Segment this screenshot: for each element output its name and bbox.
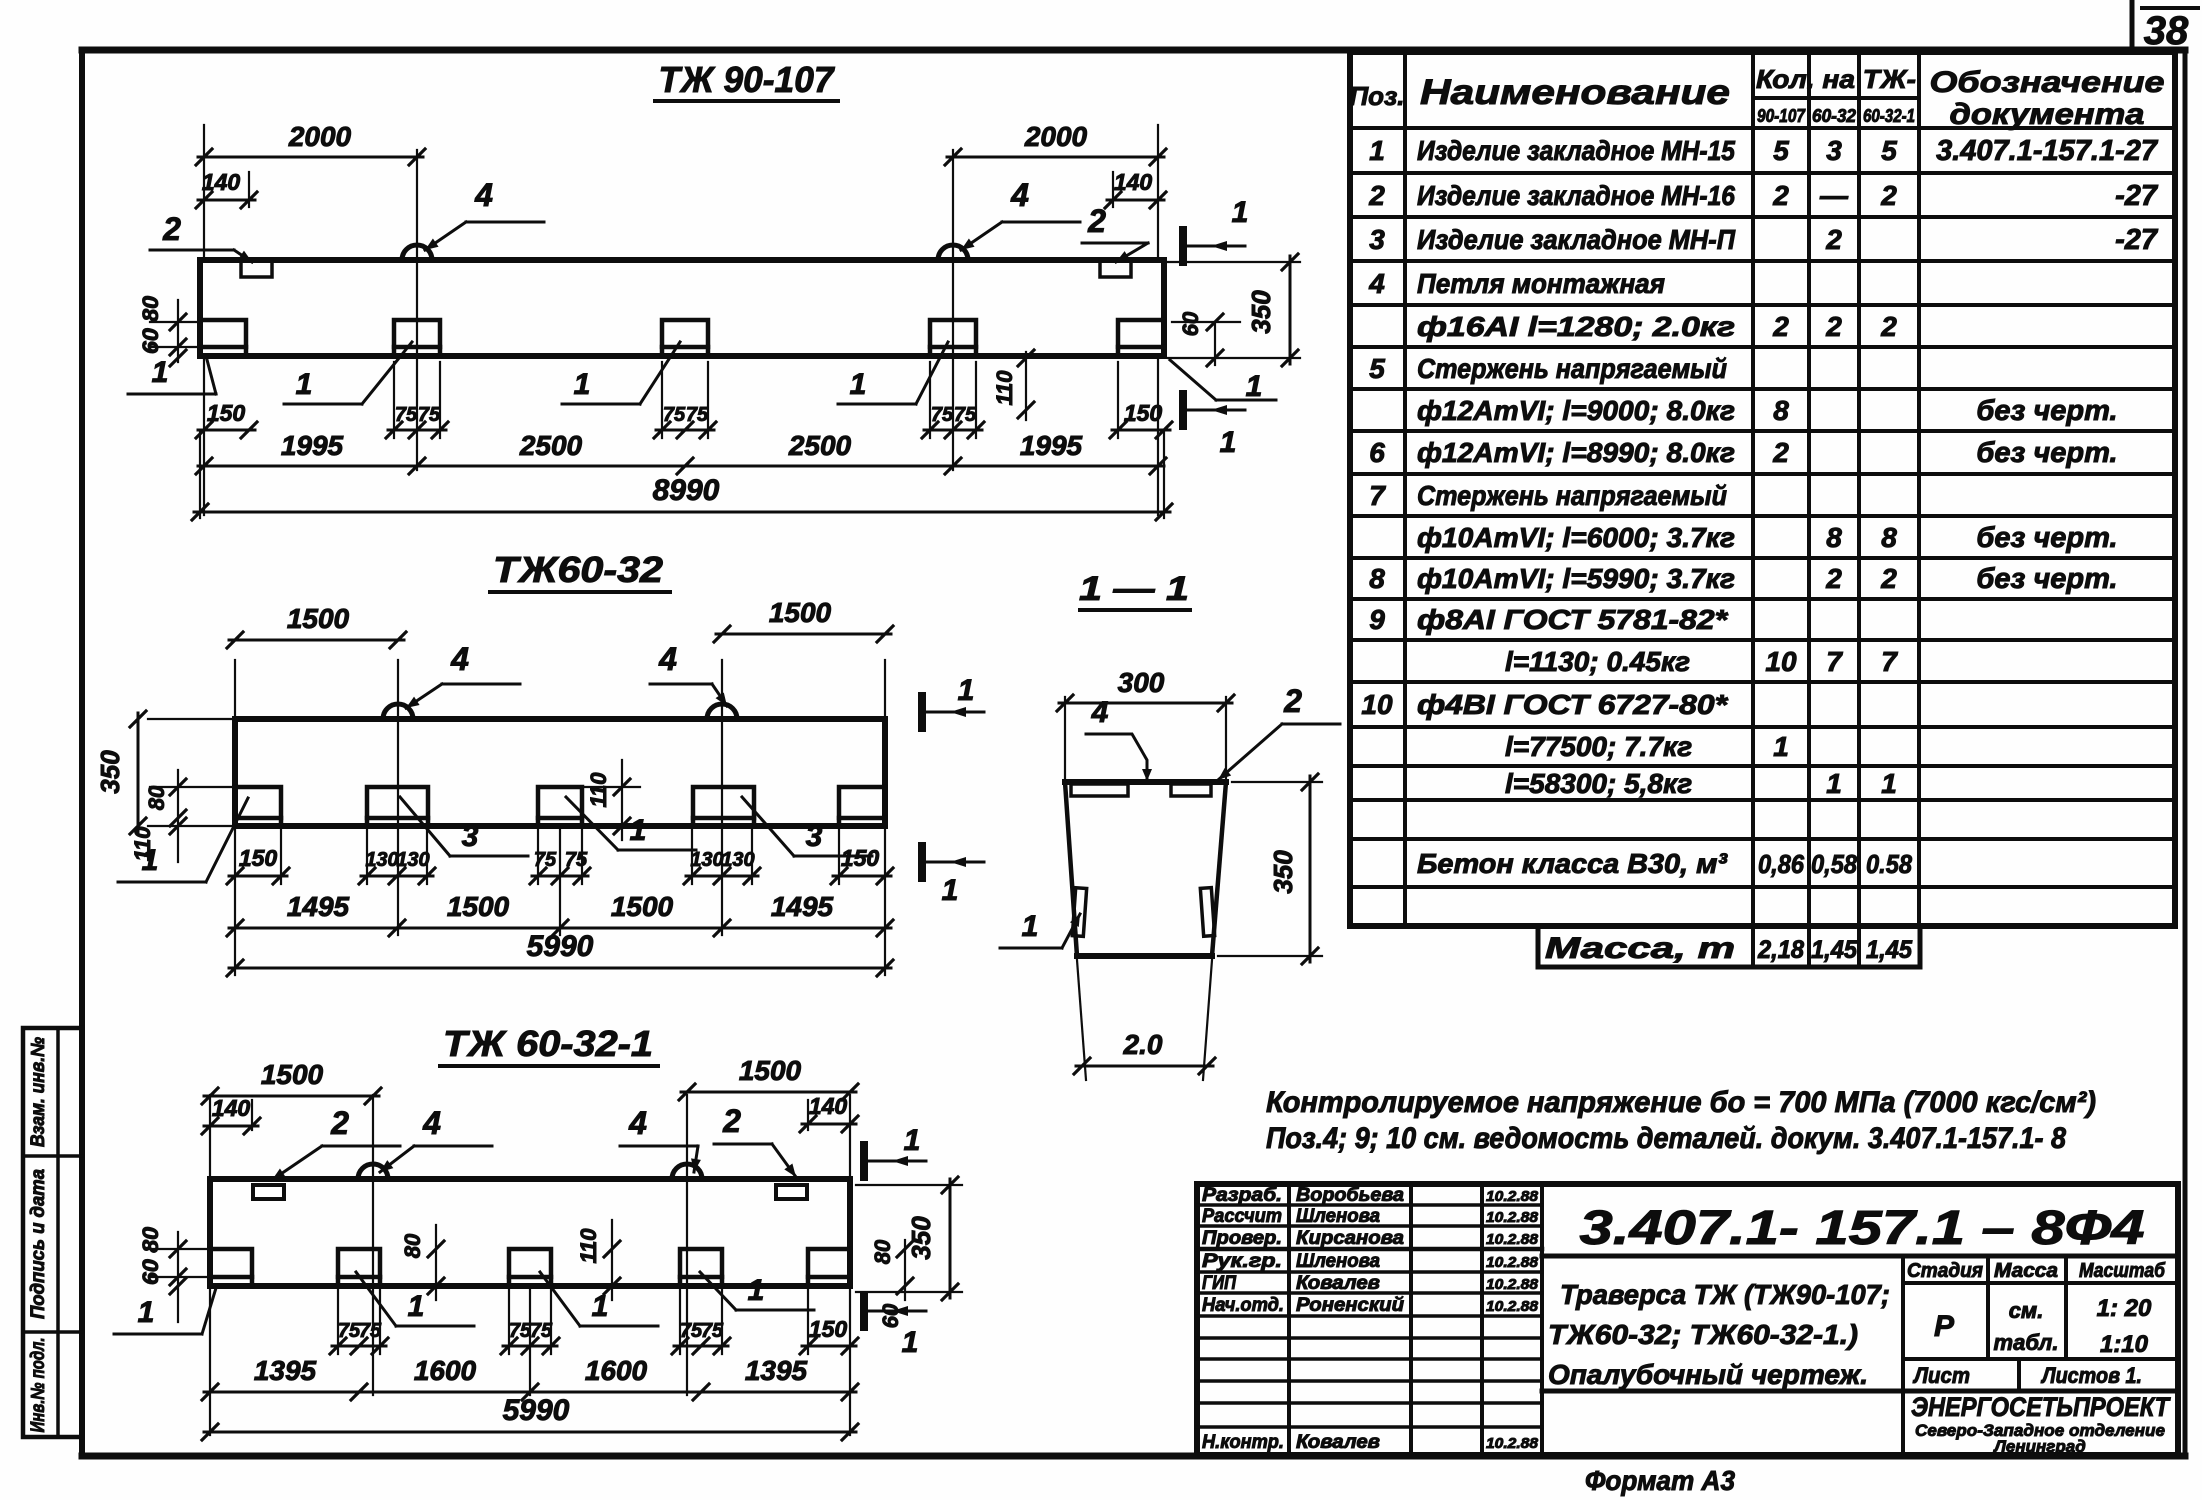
svg-text:90-107: 90-107 (1757, 106, 1806, 126)
svg-text:1: 1 (1220, 426, 1237, 459)
section 1-1 trapezoid outline (1065, 779, 1226, 785)
svg-text:3: 3 (462, 820, 479, 853)
svg-text:0.58: 0.58 (1866, 849, 1912, 879)
svg-text:4: 4 (474, 177, 493, 213)
svg-text:2: 2 (1283, 683, 1302, 719)
svg-text:1,45: 1,45 (1866, 936, 1913, 964)
dim 1500 left beam2 (229, 639, 404, 642)
beam 1 centre extension lines (416, 150, 418, 470)
svg-text:ЭНЕРГОСЕТЬПРОЕКТ: ЭНЕРГОСЕТЬПРОЕКТ (1911, 1392, 2171, 1422)
section mark 1 bottom right beam3 (860, 1295, 868, 1327)
svg-text:150: 150 (207, 400, 246, 426)
vertical dim 80/110 inside beam3 (435, 1225, 437, 1300)
svg-text:без черт.: без черт. (1976, 437, 2117, 469)
svg-text:75: 75 (530, 1320, 553, 1342)
svg-text:без черт.: без черт. (1976, 522, 2117, 554)
svg-text:10.2.88: 10.2.88 (1486, 1298, 1539, 1315)
svg-text:ф16АI l=1280; 2.0кг: ф16АI l=1280; 2.0кг (1417, 311, 1735, 342)
svg-text:3: 3 (1826, 135, 1842, 166)
lifting loops pos.4 on beam 1 (402, 245, 432, 260)
svg-text:Формат А3: Формат А3 (1585, 1465, 1735, 1496)
svg-text:3: 3 (806, 820, 823, 853)
svg-text:5990: 5990 (527, 930, 594, 963)
svg-text:150: 150 (239, 845, 278, 871)
bottom dims level A beam3 (332, 1345, 386, 1348)
svg-text:7: 7 (1826, 646, 1843, 677)
svg-text:Масса: Масса (1994, 1260, 2058, 1282)
svg-text:4: 4 (1010, 177, 1029, 213)
svg-text:Ковалев: Ковалев (1296, 1273, 1380, 1294)
svg-text:3: 3 (1369, 224, 1385, 255)
svg-text:1: 1 (1246, 370, 1263, 403)
svg-text:75: 75 (338, 1320, 361, 1342)
section mark 1 top right beam2 (918, 696, 926, 728)
svg-text:1: 1 (1773, 731, 1789, 762)
svg-text:2: 2 (1880, 311, 1897, 342)
svg-text:1: 20: 1: 20 (2097, 1295, 2152, 1322)
section mark 1 top right beam3 (860, 1145, 868, 1177)
svg-text:2000: 2000 (1024, 121, 1088, 152)
svg-text:Наименование: Наименование (1420, 73, 1730, 112)
svg-text:75: 75 (565, 849, 588, 871)
svg-text:10: 10 (1361, 689, 1393, 720)
svg-text:1500: 1500 (611, 891, 674, 922)
dim 140 left beam1 (198, 199, 255, 202)
svg-text:4: 4 (422, 1105, 441, 1141)
dim 1500 left beam3 (204, 1095, 379, 1098)
svg-text:7: 7 (1369, 480, 1386, 511)
svg-text:75: 75 (418, 404, 441, 426)
dim 300 section (1059, 702, 1232, 705)
svg-text:без черт.: без черт. (1976, 395, 2117, 427)
svg-text:2: 2 (1772, 180, 1789, 211)
parts list table (1350, 52, 2175, 926)
svg-text:5: 5 (1369, 353, 1385, 384)
svg-text:2: 2 (1825, 224, 1842, 255)
svg-text:1: 1 (904, 1124, 921, 1157)
svg-text:Лист: Лист (1912, 1363, 1970, 1388)
svg-text:10: 10 (1765, 646, 1797, 677)
svg-text:Изделие закладное МН-16: Изделие закладное МН-16 (1417, 180, 1735, 211)
dim 350 section (1309, 776, 1312, 962)
svg-text:1: 1 (630, 814, 647, 847)
svg-text:2: 2 (722, 1103, 741, 1139)
svg-text:1: 1 (958, 674, 975, 707)
svg-text:Бетон класса В30, м³: Бетон класса В30, м³ (1417, 848, 1728, 879)
section mark 1 bottom right beam2 (918, 846, 926, 878)
embedded plates on beam 2 (235, 787, 281, 826)
svg-text:1600: 1600 (585, 1355, 648, 1386)
beam TZh 60-32 outline (235, 719, 885, 826)
dim row 1495-1500-1500-1495 beam2 (229, 927, 891, 930)
svg-text:10.2.88: 10.2.88 (1486, 1209, 1539, 1226)
dim 8990 beam1 (194, 511, 1170, 514)
svg-text:4: 4 (450, 641, 469, 677)
svg-text:Стержень напрягаемый: Стержень напрягаемый (1417, 480, 1727, 511)
svg-text:2500: 2500 (788, 430, 852, 461)
dim 2.0 section (1077, 960, 1086, 1080)
svg-text:8: 8 (1773, 395, 1789, 426)
vertical dims right beam3 (949, 1179, 952, 1298)
svg-text:110: 110 (992, 370, 1017, 406)
svg-text:60-32: 60-32 (1812, 106, 1856, 126)
svg-text:Изделие закладное МН-15: Изделие закладное МН-15 (1417, 135, 1735, 166)
svg-text:1: 1 (574, 368, 591, 401)
svg-text:4: 4 (1368, 268, 1385, 299)
svg-text:75: 75 (701, 1320, 724, 1342)
svg-text:60-32-1: 60-32-1 (1863, 106, 1915, 126)
dim 140 right beam1 (1107, 199, 1164, 202)
svg-text:75: 75 (686, 404, 709, 426)
svg-text:см.: см. (2009, 1298, 2044, 1323)
svg-text:1395: 1395 (745, 1355, 808, 1386)
svg-text:2500: 2500 (519, 430, 583, 461)
svg-text:1: 1 (1022, 910, 1039, 943)
svg-text:Инв.№ подл.: Инв.№ подл. (28, 1338, 49, 1433)
svg-text:4: 4 (1091, 696, 1109, 729)
sheet frame (82, 47, 2185, 54)
svg-text:2: 2 (1368, 180, 1385, 211)
top notches pos.2 on beam 1 (241, 260, 272, 277)
svg-text:2: 2 (1880, 563, 1897, 594)
svg-text:9: 9 (1369, 604, 1385, 635)
dim 5990 beam3 (204, 1431, 856, 1434)
svg-text:Роненский: Роненский (1296, 1295, 1404, 1316)
svg-text:Траверса ТЖ (ТЖ90-107;: Траверса ТЖ (ТЖ90-107; (1560, 1279, 1890, 1310)
svg-text:1: 1 (138, 1296, 155, 1329)
svg-text:5990: 5990 (503, 1394, 570, 1427)
svg-text:2: 2 (1880, 180, 1897, 211)
svg-text:1495: 1495 (287, 891, 350, 922)
svg-text:Листов 1.: Листов 1. (2040, 1363, 2142, 1388)
svg-text:без черт.: без черт. (1976, 563, 2117, 595)
svg-text:2,18: 2,18 (1757, 936, 1804, 964)
left margin strip (23, 1028, 82, 1437)
beam 2 extension lines (397, 660, 399, 935)
svg-text:1: 1 (296, 368, 313, 401)
section top embedded strips (1071, 784, 1128, 796)
beam 3 extension lines (372, 1095, 374, 1395)
svg-text:Рассчит: Рассчит (1202, 1206, 1282, 1227)
svg-text:Опалубочный чертеж.: Опалубочный чертеж. (1548, 1359, 1868, 1390)
svg-text:5: 5 (1881, 135, 1897, 166)
svg-text:Провер.: Провер. (1202, 1228, 1282, 1249)
svg-text:75: 75 (359, 1320, 382, 1342)
svg-text:ф4ВI ГОСТ 6727-80*: ф4ВI ГОСТ 6727-80* (1417, 689, 1728, 720)
svg-text:2: 2 (1772, 437, 1789, 468)
svg-text:150: 150 (1124, 400, 1163, 426)
beam TZh 90-107 outline (200, 260, 1164, 356)
svg-text:Воробьева: Воробьева (1296, 1185, 1404, 1206)
svg-text:2: 2 (1825, 311, 1842, 342)
svg-text:Рук.гр.: Рук.гр. (1202, 1251, 1282, 1272)
svg-text:0,86: 0,86 (1758, 849, 1804, 879)
svg-text:1: 1 (748, 1274, 765, 1307)
svg-text:l=1130; 0.45кг: l=1130; 0.45кг (1505, 646, 1690, 677)
svg-text:ф10АтVI; l=6000; 3.7кг: ф10АтVI; l=6000; 3.7кг (1417, 522, 1735, 553)
svg-text:80: 80 (144, 785, 169, 810)
dim row 1995-2500-2500-1995 beam1 (198, 465, 1164, 468)
svg-text:1: 1 (1369, 135, 1385, 166)
svg-text:350: 350 (906, 1216, 936, 1260)
svg-text:1:10: 1:10 (2100, 1331, 2149, 1358)
svg-text:7: 7 (1881, 646, 1898, 677)
svg-text:Изделие закладное МН-П: Изделие закладное МН-П (1417, 224, 1736, 255)
svg-text:75: 75 (395, 404, 418, 426)
svg-text:4: 4 (658, 641, 677, 677)
svg-text:Масса, т: Масса, т (1545, 932, 1735, 965)
svg-text:110: 110 (586, 772, 611, 808)
svg-text:1: 1 (592, 1290, 609, 1323)
svg-text:80: 80 (870, 1239, 895, 1264)
svg-text:-27: -27 (2115, 224, 2159, 256)
svg-text:8: 8 (1369, 563, 1385, 594)
svg-text:4: 4 (628, 1105, 647, 1141)
svg-text:Стержень напрягаемый: Стержень напрягаемый (1417, 353, 1727, 384)
section mark 1 bottom right beam1 (1179, 394, 1187, 426)
dim 1500 right beam3 (681, 1091, 856, 1094)
svg-text:ТЖ60-32; ТЖ60-32-1.): ТЖ60-32; ТЖ60-32-1.) (1548, 1319, 1858, 1350)
svg-text:130: 130 (721, 849, 754, 871)
svg-text:10.2.88: 10.2.88 (1486, 1435, 1539, 1452)
dim 1500 right beam2 (716, 633, 891, 636)
svg-text:0,58: 0,58 (1811, 849, 1857, 879)
svg-text:Разраб.: Разраб. (1202, 1185, 1282, 1206)
svg-text:Кол. на ТЖ-: Кол. на ТЖ- (1756, 64, 1916, 94)
dim row 1395-1600-1600-1395 beam3 (204, 1391, 856, 1394)
svg-text:Р: Р (1934, 1310, 1955, 1343)
svg-text:табл.: табл. (1994, 1330, 2059, 1355)
svg-text:110: 110 (576, 1228, 601, 1264)
svg-text:Поз.: Поз. (1349, 81, 1404, 111)
lifting loops pos.4 on beam 3 (358, 1164, 388, 1179)
svg-text:1: 1 (850, 368, 867, 401)
page number 38 box (2130, 0, 2135, 50)
dim 5990 beam2 (229, 967, 891, 970)
svg-text:130: 130 (396, 849, 429, 871)
svg-text:Нач.отд.: Нач.отд. (1202, 1295, 1284, 1316)
svg-text:75: 75 (954, 404, 977, 426)
svg-text:350: 350 (1268, 850, 1298, 894)
org cell (1542, 1389, 2178, 1394)
svg-text:140: 140 (1114, 169, 1153, 195)
svg-text:Шленова: Шленова (1296, 1206, 1380, 1227)
svg-text:ТЖ 90-107: ТЖ 90-107 (659, 59, 836, 100)
svg-text:Стадия: Стадия (1907, 1260, 1983, 1282)
svg-text:2: 2 (1825, 563, 1842, 594)
svg-text:10.2.88: 10.2.88 (1486, 1188, 1539, 1205)
svg-text:130: 130 (690, 849, 723, 871)
svg-text:ф10АтVI; l=5990; 3.7кг: ф10АтVI; l=5990; 3.7кг (1417, 563, 1735, 594)
svg-text:l=77500; 7.7кг: l=77500; 7.7кг (1505, 731, 1692, 762)
svg-text:130: 130 (365, 849, 398, 871)
svg-text:60: 60 (1178, 311, 1203, 336)
title block (1197, 1184, 2178, 1455)
svg-text:1395: 1395 (254, 1355, 317, 1386)
vertical dims right beam1 (1289, 256, 1292, 364)
svg-text:ТЖ60-32: ТЖ60-32 (493, 549, 663, 590)
list row (1903, 1357, 2178, 1361)
svg-text:1: 1 (1826, 768, 1842, 799)
svg-text:1500: 1500 (739, 1055, 802, 1086)
svg-text:Петля монтажная: Петля монтажная (1417, 268, 1665, 299)
svg-text:Ковалев: Ковалев (1296, 1432, 1380, 1453)
svg-text:Поз.4; 9; 10 см. ведомость дет: Поз.4; 9; 10 см. ведомость деталей. доку… (1266, 1122, 2066, 1155)
svg-text:Н.контр.: Н.контр. (1202, 1432, 1284, 1453)
svg-text:Контролируемое напряжение бо: Контролируемое напряжение бо = 700 МПа (… (1266, 1086, 2096, 1119)
bottom dims level A beam1 (198, 429, 255, 432)
svg-text:5: 5 (1773, 135, 1789, 166)
svg-text:2: 2 (330, 1105, 349, 1141)
svg-text:300: 300 (1118, 667, 1165, 698)
svg-text:ГИП: ГИП (1202, 1273, 1236, 1294)
svg-text:60 80: 60 80 (138, 295, 163, 354)
svg-text:Взам. инв.№: Взам. инв.№ (28, 1037, 49, 1147)
svg-text:75: 75 (509, 1320, 532, 1342)
embedded plates on beam 3 (210, 1249, 252, 1286)
svg-text:8990: 8990 (653, 474, 720, 507)
vertical dim 110 inside beam2 (621, 760, 623, 840)
section side plates pos.1 (1072, 888, 1086, 937)
svg-text:75: 75 (931, 404, 954, 426)
svg-text:1: 1 (1881, 768, 1897, 799)
svg-text:2.0: 2.0 (1123, 1029, 1163, 1060)
svg-text:38: 38 (2144, 9, 2189, 53)
svg-text:75: 75 (663, 404, 686, 426)
svg-text:1500: 1500 (769, 597, 832, 628)
embedded plates pos.1 on beam 1 (200, 320, 246, 356)
svg-text:ф8АI ГОСТ 5781-82*: ф8АI ГОСТ 5781-82* (1417, 604, 1728, 635)
vertical dims left beam2 (137, 713, 140, 832)
svg-text:60: 60 (878, 1303, 903, 1328)
svg-text:документа: документа (1950, 98, 2145, 131)
svg-text:1500: 1500 (287, 603, 350, 634)
dim 2000 right beam1 (947, 156, 1164, 159)
svg-text:2: 2 (162, 211, 181, 247)
svg-text:Ленинград: Ленинград (1992, 1437, 2085, 1456)
svg-text:10.2.88: 10.2.88 (1486, 1276, 1539, 1293)
svg-text:1,45: 1,45 (1811, 936, 1858, 964)
massa row (1538, 926, 1920, 967)
svg-text:1995: 1995 (281, 430, 344, 461)
stadia massa masshtab header (1901, 1256, 1905, 1391)
svg-text:2: 2 (1772, 311, 1789, 342)
lifting loops pos.4 on beam 2 (383, 704, 413, 719)
svg-text:ф12АтVI; l=9000; 8.0кг: ф12АтVI; l=9000; 8.0кг (1417, 395, 1735, 426)
svg-text:2000: 2000 (288, 121, 352, 152)
svg-text:3.407.1-157.1-27: 3.407.1-157.1-27 (1936, 135, 2159, 167)
dim 2000 left beam1 (198, 156, 423, 159)
svg-text:—: — (1819, 180, 1849, 211)
svg-text:1500: 1500 (261, 1059, 324, 1090)
svg-text:8: 8 (1826, 522, 1842, 553)
svg-text:6: 6 (1369, 437, 1385, 468)
svg-text:3.407.1- 157.1 – 8Ф4: 3.407.1- 157.1 – 8Ф4 (1580, 1202, 2145, 1255)
svg-text:1: 1 (152, 356, 169, 389)
top notches pos.2 on beam 3 (253, 1185, 284, 1199)
svg-text:ф12АтVI; l=8990; 8.0кг: ф12АтVI; l=8990; 8.0кг (1417, 437, 1735, 468)
svg-text:1495: 1495 (771, 891, 834, 922)
svg-text:8: 8 (1881, 522, 1897, 553)
svg-text:1: 1 (942, 874, 959, 907)
svg-text:1 — 1: 1 — 1 (1079, 570, 1189, 608)
svg-text:10.2.88: 10.2.88 (1486, 1254, 1539, 1271)
vertical dims left beam3 (177, 1232, 179, 1322)
vertical dims left beam1 (177, 300, 179, 362)
svg-text:1: 1 (902, 1326, 919, 1359)
svg-text:ТЖ 60-32-1: ТЖ 60-32-1 (443, 1023, 653, 1064)
svg-text:1995: 1995 (1020, 430, 1083, 461)
svg-text:l=58300; 5,8кг: l=58300; 5,8кг (1505, 768, 1692, 799)
doc number cell (1542, 1254, 2178, 1259)
svg-text:140: 140 (202, 169, 241, 195)
svg-text:10.2.88: 10.2.88 (1486, 1231, 1539, 1248)
svg-text:Шленова: Шленова (1296, 1251, 1380, 1272)
svg-text:350: 350 (95, 750, 125, 794)
svg-text:2: 2 (1087, 203, 1106, 239)
svg-text:75: 75 (680, 1320, 703, 1342)
svg-text:80: 80 (400, 1233, 425, 1258)
section mark 1 top right beam1 (1179, 230, 1187, 262)
svg-text:Подпись и дата: Подпись и дата (28, 1169, 49, 1319)
beam TZh 60-32-1 outline (210, 1179, 850, 1286)
svg-text:Обозначение: Обозначение (1930, 66, 2165, 99)
svg-text:1500: 1500 (447, 891, 510, 922)
svg-text:1600: 1600 (414, 1355, 477, 1386)
svg-text:Масштаб: Масштаб (2079, 1260, 2166, 1282)
svg-text:140: 140 (809, 1093, 848, 1119)
svg-text:Кирсанова: Кирсанова (1296, 1228, 1404, 1249)
svg-text:110: 110 (130, 826, 155, 862)
svg-text:350: 350 (1246, 290, 1276, 334)
dim 140 right beam3 (802, 1123, 856, 1126)
svg-text:-27: -27 (2115, 180, 2159, 212)
svg-text:1: 1 (1232, 196, 1249, 229)
dim 140 left beam3 (204, 1125, 258, 1128)
svg-text:1: 1 (408, 1290, 425, 1323)
svg-text:140: 140 (212, 1095, 251, 1121)
